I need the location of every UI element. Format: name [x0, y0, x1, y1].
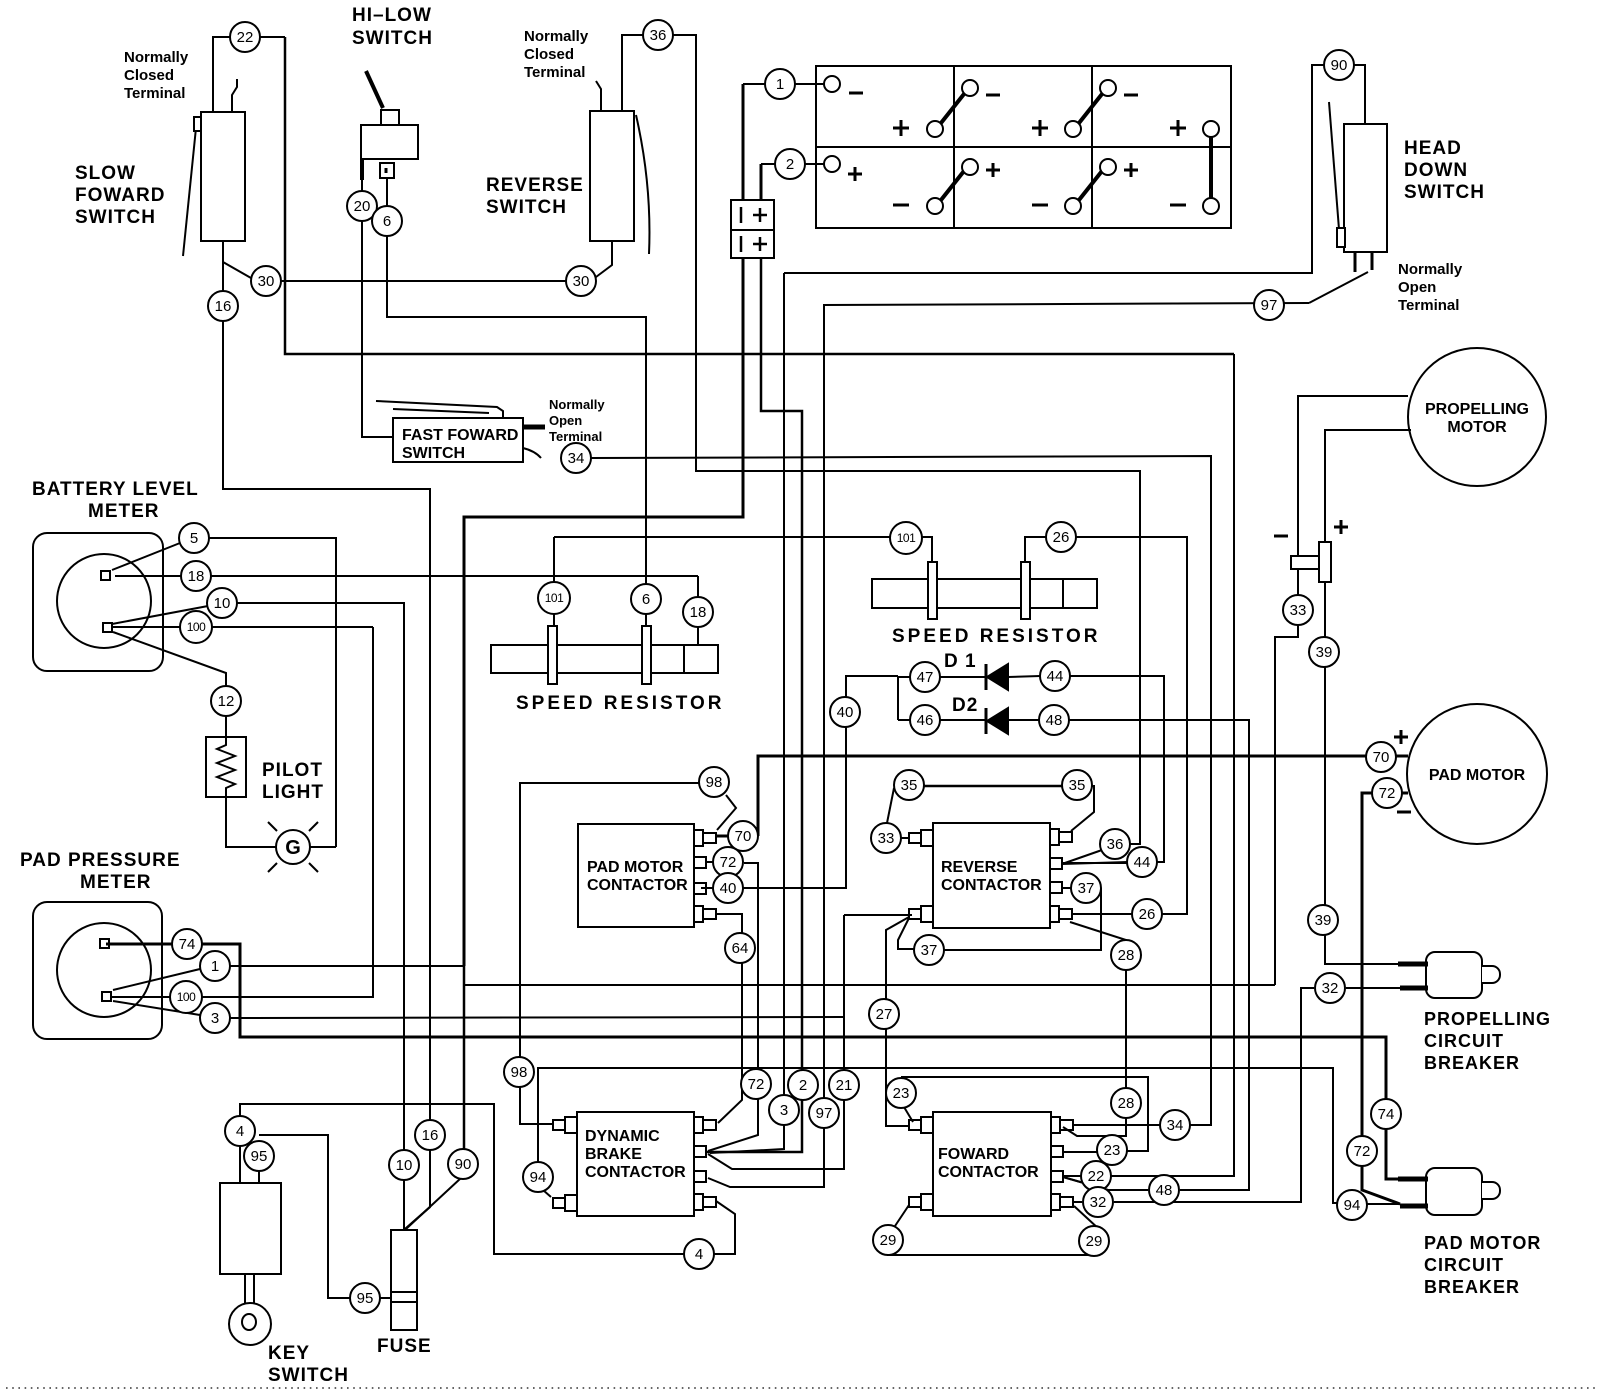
label pad motor circuit breaker: [1424, 1233, 1541, 1297]
wire 100 (battery level meter to pad pressure meter): [112, 627, 373, 997]
svg-text:18: 18: [690, 604, 707, 621]
svg-text:5: 5: [190, 530, 198, 547]
svg-text:95: 95: [357, 1290, 374, 1307]
label D1: [944, 651, 977, 672]
svg-text:Normally: Normally: [124, 49, 189, 66]
battery level meter M1: [33, 533, 163, 671]
node tag 72c: [1347, 1136, 1377, 1166]
svg-text:CONTACTOR: CONTACTOR: [585, 1164, 686, 1181]
wire 34 (fast forward switch to forward contactor): [523, 448, 1211, 1125]
svg-text:LIGHT: LIGHT: [262, 782, 324, 803]
node tag 33b: [871, 823, 901, 853]
wire 10-16-90 fuse junction: [405, 517, 464, 1229]
wire 10 (battery level meter to fuse): [112, 603, 404, 1230]
svg-text:Normally: Normally: [1398, 261, 1463, 278]
label battery level meter: [32, 479, 199, 522]
wire 4 (key switch to dynamic brake contactor): [240, 1104, 735, 1254]
node tag 72pm: [1372, 778, 1402, 808]
label normally open terminal right: [1398, 261, 1463, 314]
svg-text:PAD MOTOR: PAD MOTOR: [587, 859, 684, 876]
node tag 4: [225, 1116, 255, 1146]
node tag 46: [910, 705, 940, 735]
node tag 36: [643, 20, 673, 50]
svg-text:28: 28: [1118, 1095, 1135, 1112]
wire 98 (pad motor contactor to dynamic brake contactor): [520, 783, 736, 1124]
svg-text:90: 90: [1331, 57, 1348, 74]
svg-text:32: 32: [1090, 1194, 1107, 1211]
fast forward switch S4: [376, 401, 545, 462]
label propelling motor: [1425, 401, 1529, 436]
wire 44 diagonal at reverse contactor: [1062, 862, 1128, 864]
pad pressure meter M2: [33, 902, 162, 1039]
svg-text:40: 40: [720, 880, 737, 897]
svg-text:BREAKER: BREAKER: [1424, 1277, 1520, 1297]
wire 33 (reverse contactor coil left): [901, 837, 909, 839]
node tag 4b: [684, 1239, 714, 1269]
svg-text:DOWN: DOWN: [1404, 160, 1468, 181]
node tag 70: [1366, 742, 1396, 772]
svg-text:26: 26: [1053, 529, 1070, 546]
node tag 1: [765, 69, 795, 99]
node tag 18: [181, 561, 211, 591]
svg-text:HEAD: HEAD: [1404, 138, 1462, 159]
svg-text:28: 28: [1118, 947, 1135, 964]
svg-text:48: 48: [1156, 1182, 1173, 1199]
svg-text:HI–LOW: HI–LOW: [352, 5, 432, 26]
node tag 5: [179, 523, 209, 553]
svg-text:12: 12: [218, 693, 235, 710]
svg-text:34: 34: [1167, 1117, 1184, 1134]
node tag 26b: [1132, 899, 1162, 929]
node tag 101b: [538, 582, 570, 614]
forward contactor K4: [909, 1112, 1073, 1216]
diode D2 row wires 46 48: [898, 720, 1249, 1190]
wire 72 (pad motor contactor to dynamic brake contactor): [706, 862, 758, 1151]
label pad pressure meter: [20, 850, 181, 893]
wire 33 (propelling motor minus return): [1275, 396, 1408, 985]
svg-text:PAD MOTOR: PAD MOTOR: [1429, 767, 1526, 784]
svg-text:16: 16: [215, 298, 232, 315]
svg-text:CONTACTOR: CONTACTOR: [938, 1164, 1039, 1181]
svg-text:Terminal: Terminal: [1398, 297, 1459, 314]
pad motor MOT2: [1394, 704, 1547, 844]
svg-text:20: 20: [354, 198, 371, 215]
svg-text:3: 3: [780, 1102, 788, 1119]
svg-text:4: 4: [236, 1123, 244, 1140]
label pad motor contactor: [587, 859, 688, 894]
wire 5 (battery level meter to pilot light): [112, 538, 336, 847]
label pad motor: [1429, 767, 1526, 784]
node tag 27: [869, 999, 899, 1029]
diode D1 row wires 47 44: [898, 676, 1164, 864]
label normally closed terminal middle: [524, 28, 589, 81]
svg-text:23: 23: [1104, 1142, 1121, 1159]
node tag 40b: [713, 873, 743, 903]
wire 26 (right speed resistor to reverse contactor): [1025, 537, 1187, 914]
svg-text:29: 29: [1086, 1233, 1103, 1250]
wire 12 (meter to pilot light resistor): [113, 632, 226, 737]
svg-text:PAD PRESSURE: PAD PRESSURE: [20, 850, 181, 871]
label speed resistor left: [516, 693, 724, 714]
wire 2 (battery positive to connector and dynamic brake contactor): [706, 164, 824, 1152]
svg-text:CIRCUIT: CIRCUIT: [1424, 1031, 1504, 1051]
wire 18 (battery level meter to speed resistor): [115, 576, 698, 644]
pad motor contactor K1: [578, 824, 716, 927]
svg-text:35: 35: [1069, 777, 1086, 794]
wire 39 (propelling motor plus to propelling circuit breaker): [1325, 430, 1426, 964]
svg-text:44: 44: [1134, 854, 1151, 871]
wire 30 (slow forward switch to reverse switch): [223, 241, 612, 281]
node tag 23: [886, 1078, 916, 1108]
wire 35 (reverse contactor coil top): [887, 786, 1094, 831]
svg-text:D 1: D 1: [944, 651, 977, 672]
svg-text:METER: METER: [80, 872, 152, 893]
node tag 16b: [415, 1120, 445, 1150]
svg-text:70: 70: [735, 828, 752, 845]
svg-text:22: 22: [237, 29, 254, 46]
svg-text:94: 94: [530, 1169, 547, 1186]
battery connector J1: [731, 200, 774, 258]
svg-text:Terminal: Terminal: [124, 85, 185, 102]
node tag 16: [208, 291, 238, 321]
diode D1: [986, 664, 1008, 690]
svg-text:SPEED RESISTOR: SPEED RESISTOR: [892, 626, 1100, 647]
svg-text:CIRCUIT: CIRCUIT: [1424, 1255, 1504, 1275]
svg-text:SPEED RESISTOR: SPEED RESISTOR: [516, 693, 724, 714]
svg-text:Closed: Closed: [124, 67, 174, 84]
label reverse contactor: [941, 859, 1042, 894]
node tag 34b: [1160, 1110, 1190, 1140]
svg-text:33: 33: [1290, 602, 1307, 619]
svg-text:46: 46: [917, 712, 934, 729]
pilot light lamp G: [268, 822, 318, 872]
svg-text:36: 36: [650, 27, 667, 44]
node tag 90b: [448, 1149, 478, 1179]
svg-text:90: 90: [455, 1156, 472, 1173]
node tag 100b: [170, 981, 202, 1013]
node tag 18b: [683, 597, 713, 627]
node tag 1b: [200, 951, 230, 981]
propelling motor MOT1: [1408, 348, 1546, 486]
label dynamic brake contactor: [585, 1128, 686, 1181]
svg-text:PROPELLING: PROPELLING: [1425, 401, 1529, 418]
svg-text:3: 3: [211, 1010, 219, 1027]
svg-text:98: 98: [706, 774, 723, 791]
wire 22 (slow forward switch to forward contactor): [213, 37, 1234, 1176]
svg-text:SWITCH: SWITCH: [352, 28, 433, 49]
node tag 36b: [1100, 829, 1130, 859]
wire 26-36 tap (reverse contactor lower right horizontal): [1122, 913, 1132, 915]
svg-text:Open: Open: [549, 413, 582, 428]
svg-text:1: 1: [211, 958, 219, 975]
svg-text:BATTERY LEVEL: BATTERY LEVEL: [32, 479, 199, 500]
hi-low switch S2: [361, 71, 418, 180]
svg-text:35: 35: [901, 777, 918, 794]
wire 94 (dynamic brake contactor to pad motor circuit breaker): [538, 1068, 1400, 1204]
wire 23 (forward contactor coil loop): [902, 1077, 1148, 1152]
node tag 32b: [1083, 1187, 1113, 1217]
fuse F1: [391, 1230, 417, 1330]
wire 3 horizontal (pad pressure meter to tag 21 vertical): [113, 1001, 844, 1018]
node tag 98b: [504, 1057, 534, 1087]
node tag 30b: [566, 266, 596, 296]
svg-text:29: 29: [880, 1232, 897, 1249]
node tag 95b: [350, 1283, 380, 1313]
svg-text:39: 39: [1316, 644, 1333, 661]
node tag 10: [207, 588, 237, 618]
node tag 98: [699, 767, 729, 797]
node tag 32: [1315, 973, 1345, 1003]
svg-text:101: 101: [545, 591, 564, 605]
svg-text:FOWARD: FOWARD: [75, 185, 165, 206]
svg-text:97: 97: [1261, 297, 1278, 314]
node tag 44: [1040, 661, 1070, 691]
node tag 20: [347, 191, 377, 221]
svg-text:Normally: Normally: [524, 28, 589, 45]
svg-text:SWITCH: SWITCH: [75, 207, 156, 228]
node tag 97: [1254, 290, 1284, 320]
label fast forward switch: [402, 427, 518, 462]
svg-text:REVERSE: REVERSE: [941, 859, 1018, 876]
svg-text:2: 2: [799, 1077, 807, 1094]
wire 48 diagonal into forward contactor: [1063, 1177, 1108, 1190]
svg-text:100: 100: [187, 620, 206, 634]
node tag 47: [910, 662, 940, 692]
reverse switch S3: [590, 81, 649, 254]
wire 981 return (propelling motor minus return): [464, 984, 1275, 986]
propelling motor connector: [1274, 520, 1348, 582]
svg-text:REVERSE: REVERSE: [486, 175, 584, 196]
node tag 12: [211, 686, 241, 716]
node tag 34: [561, 443, 591, 473]
reverse contactor K2: [909, 823, 1072, 928]
svg-text:39: 39: [1315, 912, 1332, 929]
wire 28 (reverse contactor to forward contactor): [1063, 922, 1126, 1136]
svg-text:37: 37: [921, 942, 938, 959]
node tag 2b: [788, 1070, 818, 1100]
pad motor circuit breaker CB2: [1398, 1168, 1500, 1215]
svg-text:21: 21: [836, 1077, 853, 1094]
svg-text:23: 23: [893, 1085, 910, 1102]
propelling circuit breaker CB1: [1398, 952, 1500, 998]
svg-text:26: 26: [1139, 906, 1156, 923]
key switch S6: [220, 1183, 281, 1345]
svg-text:Normally: Normally: [549, 397, 605, 412]
svg-text:72: 72: [1354, 1143, 1371, 1160]
svg-text:16: 16: [422, 1127, 439, 1144]
svg-text:SWITCH: SWITCH: [402, 445, 465, 462]
wire 36 (reverse switch to reverse contactor): [622, 35, 1140, 864]
svg-text:6: 6: [642, 591, 650, 608]
node tag 30: [251, 266, 281, 296]
node tag 26: [1046, 522, 1076, 552]
label key switch: [268, 1343, 349, 1386]
node tag 97b: [809, 1098, 839, 1128]
wire 16 (slow forward switch to fuse): [223, 262, 430, 1229]
svg-text:34: 34: [568, 450, 585, 467]
svg-text:100: 100: [177, 990, 196, 1004]
node tag 94b: [1337, 1190, 1367, 1220]
node tag 39b: [1308, 905, 1338, 935]
node tag 35b: [1062, 770, 1092, 800]
wire 21 net (reverse contactor lower left down to dynamic brake contactor): [708, 915, 912, 1169]
wire 20 (hi-low switch to fast forward switch): [362, 159, 393, 437]
svg-text:SWITCH: SWITCH: [268, 1365, 349, 1386]
wire 37 (reverse contactor coil): [898, 888, 1101, 950]
wire 97 (head down switch to dynamic brake contactor): [708, 272, 1368, 1187]
svg-text:74: 74: [179, 936, 196, 953]
svg-text:48: 48: [1046, 712, 1063, 729]
svg-text:44: 44: [1047, 668, 1064, 685]
svg-text:95: 95: [251, 1148, 268, 1165]
battery bank BT1: [816, 66, 1231, 228]
node tag 90: [1324, 50, 1354, 80]
svg-text:PROPELLING: PROPELLING: [1424, 1009, 1551, 1029]
wire tag74 vertical at breaker: [1385, 1098, 1388, 1130]
svg-text:2: 2: [786, 156, 794, 173]
node tag 29b: [1079, 1226, 1109, 1256]
node tag 28b: [1111, 1088, 1141, 1118]
node tag 22: [230, 22, 260, 52]
wire 1 (battery negative to connector and pad pressure meter): [113, 84, 824, 990]
svg-text:30: 30: [258, 273, 275, 290]
label normally closed terminal left: [124, 49, 189, 102]
svg-text:37: 37: [1078, 880, 1095, 897]
svg-text:10: 10: [214, 595, 231, 612]
node tag 10b: [389, 1150, 419, 1180]
svg-text:18: 18: [188, 568, 205, 585]
wire 29 (forward contactor coil bottom): [888, 1205, 1100, 1255]
node tag 72b: [741, 1069, 771, 1099]
svg-text:72: 72: [1379, 785, 1396, 802]
svg-text:Closed: Closed: [524, 46, 574, 63]
right speed resistor R2: [872, 562, 1097, 619]
svg-text:SLOW: SLOW: [75, 163, 136, 184]
svg-text:Terminal: Terminal: [524, 64, 585, 81]
wire 3 vertical (to dynamic brake contactor): [710, 273, 784, 1153]
node tag 94: [523, 1162, 553, 1192]
node tag 2: [775, 149, 805, 179]
svg-text:10: 10: [396, 1157, 413, 1174]
node tag 74b: [1371, 1099, 1401, 1129]
node tag 100: [180, 611, 212, 643]
pilot light resistor R3: [206, 737, 246, 797]
node tag 6: [372, 206, 402, 236]
node tag 48: [1039, 705, 1069, 735]
slow forward switch S1: [183, 79, 245, 256]
svg-text:FUSE: FUSE: [377, 1336, 432, 1357]
label normally open terminal fast forward: [549, 397, 605, 444]
node tag 101: [890, 522, 922, 554]
node tag 23b: [1097, 1135, 1127, 1165]
svg-text:DYNAMIC: DYNAMIC: [585, 1128, 660, 1145]
svg-text:6: 6: [383, 213, 391, 230]
svg-text:FOWARD: FOWARD: [938, 1146, 1009, 1163]
label D2: [952, 695, 978, 716]
svg-text:30: 30: [573, 273, 590, 290]
node tag 35: [894, 770, 924, 800]
node tag 44b: [1127, 847, 1157, 877]
svg-text:32: 32: [1322, 980, 1339, 997]
label propelling circuit breaker: [1424, 1009, 1551, 1073]
svg-text:D2: D2: [952, 695, 978, 716]
svg-text:22: 22: [1088, 1168, 1105, 1185]
svg-text:72: 72: [720, 854, 737, 871]
node tag 74: [172, 929, 202, 959]
svg-text:47: 47: [917, 669, 934, 686]
svg-text:74: 74: [1378, 1106, 1395, 1123]
label reverse switch: [486, 175, 584, 218]
node tag 33: [1283, 595, 1313, 625]
svg-text:1: 1: [776, 76, 784, 93]
label speed resistor right: [892, 626, 1100, 647]
node tag 48b: [1149, 1175, 1179, 1205]
svg-text:BRAKE: BRAKE: [585, 1146, 642, 1163]
svg-text:G: G: [285, 837, 301, 859]
svg-text:4: 4: [695, 1246, 703, 1263]
svg-text:27: 27: [876, 1006, 893, 1023]
svg-text:72: 72: [748, 1076, 765, 1093]
node tag 22b: [1081, 1161, 1111, 1191]
node tag 64: [725, 933, 755, 963]
wire 74 feed (pad pressure meter to pad motor circuit breaker): [106, 944, 1426, 1179]
node tag 21: [829, 1070, 859, 1100]
svg-text:CONTACTOR: CONTACTOR: [941, 877, 1042, 894]
wire 27 (reverse contactor to forward contactor): [886, 917, 909, 1126]
wire 6 (hi-low switch to speed resistor): [387, 178, 646, 626]
node tag 3: [200, 1003, 230, 1033]
svg-text:KEY: KEY: [268, 1343, 310, 1364]
svg-text:PAD MOTOR: PAD MOTOR: [1424, 1233, 1541, 1253]
svg-text:70: 70: [1373, 749, 1390, 766]
left speed resistor R1: [491, 626, 718, 684]
head down switch S5: [1329, 102, 1387, 272]
wire 72 thick (pad motor minus to pad motor circuit breaker): [1362, 793, 1408, 1204]
svg-text:SWITCH: SWITCH: [486, 197, 567, 218]
node tag 28: [1111, 940, 1141, 970]
wire 101 (left speed resistor to right speed resistor): [554, 537, 932, 626]
diode D2: [986, 708, 1008, 734]
label head down switch: [1404, 138, 1485, 203]
node tag 39: [1309, 637, 1339, 667]
svg-text:33: 33: [878, 830, 895, 847]
svg-text:Terminal: Terminal: [549, 429, 602, 444]
node tag 40: [830, 697, 860, 727]
pilot light lamp wires: [226, 797, 336, 847]
svg-text:PILOT: PILOT: [262, 760, 323, 781]
svg-text:98: 98: [511, 1064, 528, 1081]
label hi-low switch: [352, 5, 433, 49]
svg-text:METER: METER: [88, 501, 160, 522]
wire 40 (pad motor contactor to diodes): [701, 676, 898, 888]
label pilot light: [262, 760, 324, 803]
wire 64 (pad motor contactor to dynamic brake contactor): [716, 914, 742, 1123]
node tag 29: [873, 1225, 903, 1255]
svg-text:SWITCH: SWITCH: [1404, 182, 1485, 203]
label slow forward switch: [75, 163, 165, 228]
node tag 95: [244, 1141, 274, 1171]
node tag 72: [713, 847, 743, 877]
svg-text:101: 101: [897, 531, 916, 545]
svg-text:BREAKER: BREAKER: [1424, 1053, 1520, 1073]
wire 32 (propelling circuit breaker to forward contactor): [1074, 988, 1400, 1202]
svg-text:64: 64: [732, 940, 749, 957]
label fuse: [377, 1336, 432, 1357]
wire 70 (pad motor contactor to pad motor plus): [716, 756, 1408, 836]
wire 95 (key switch to fuse): [259, 1135, 391, 1298]
svg-text:36: 36: [1107, 836, 1124, 853]
svg-text:Open: Open: [1398, 279, 1436, 296]
